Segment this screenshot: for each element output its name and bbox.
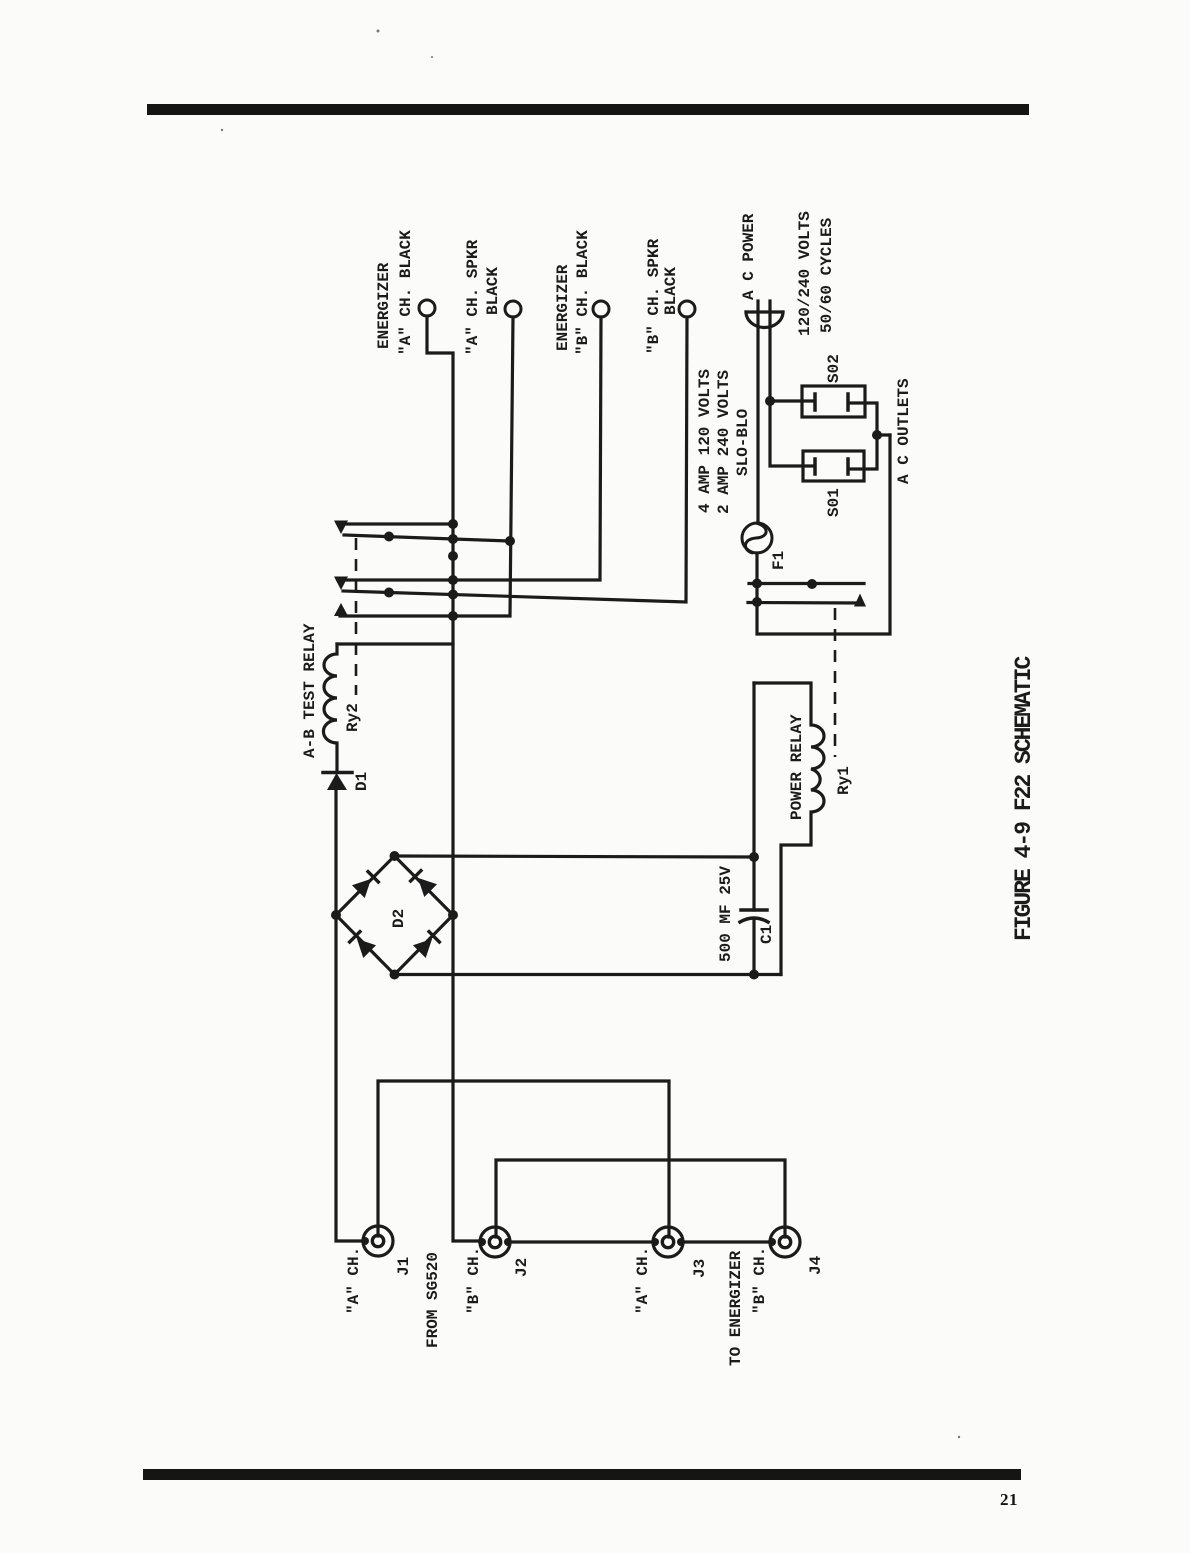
svg-text:ENERGIZER: ENERGIZER [554, 264, 572, 351]
svg-text:21: 21 [1000, 1490, 1018, 1509]
svg-text:"A" CH.: "A" CH. [345, 1247, 363, 1314]
svg-text:"A" CH.: "A" CH. [634, 1247, 652, 1314]
svg-text:"B" CH. SPKR: "B" CH. SPKR [645, 238, 663, 354]
svg-text:SLO-BLO: SLO-BLO [734, 408, 752, 476]
svg-text:"A" CH. BLACK: "A" CH. BLACK [397, 230, 415, 355]
svg-text:50/60 CYCLES: 50/60 CYCLES [818, 217, 836, 333]
svg-text:A C POWER: A C POWER [740, 213, 758, 300]
svg-text:"B" CH. BLACK: "B" CH. BLACK [574, 230, 592, 355]
svg-text:Ry1: Ry1 [835, 766, 853, 795]
svg-text:D2: D2 [390, 909, 408, 928]
svg-text:A-B TEST RELAY: A-B TEST RELAY [301, 623, 319, 758]
svg-text:BLACK: BLACK [662, 267, 680, 315]
svg-text:500 MF 25V: 500 MF 25V [717, 866, 735, 962]
svg-text:TO ENERGIZER: TO ENERGIZER [727, 1250, 745, 1366]
svg-text:J2: J2 [513, 1258, 531, 1277]
svg-text:J3: J3 [691, 1259, 709, 1278]
svg-text:S02: S02 [825, 354, 843, 383]
svg-text:4 AMP 120 VOLTS: 4 AMP 120 VOLTS [696, 369, 714, 513]
svg-text:D1: D1 [353, 772, 371, 791]
svg-text:ENERGIZER: ENERGIZER [375, 262, 393, 349]
svg-text:2 AMP 240 VOLTS: 2 AMP 240 VOLTS [715, 370, 733, 514]
svg-text:"A" CH. SPKR: "A" CH. SPKR [464, 239, 482, 355]
svg-text:120/240 VOLTS: 120/240 VOLTS [796, 211, 814, 336]
svg-text:Ry2: Ry2 [344, 703, 362, 732]
svg-text:"B" CH.: "B" CH. [751, 1247, 769, 1314]
svg-text:F1: F1 [770, 551, 788, 570]
svg-text:A C OUTLETS: A C OUTLETS [895, 378, 913, 484]
svg-text:POWER RELAY: POWER RELAY [788, 714, 806, 820]
svg-text:FIGURE 4-9 F22 SCHEMATIC: FIGURE 4-9 F22 SCHEMATIC [1011, 656, 1037, 941]
svg-text:FROM SG520: FROM SG520 [424, 1252, 442, 1348]
svg-text:J1: J1 [395, 1257, 413, 1276]
svg-text:"B" CH.: "B" CH. [465, 1247, 483, 1314]
svg-text:S01: S01 [825, 488, 843, 517]
svg-text:J4: J4 [807, 1255, 825, 1275]
svg-text:BLACK: BLACK [484, 267, 502, 315]
svg-text:C1: C1 [758, 925, 776, 944]
